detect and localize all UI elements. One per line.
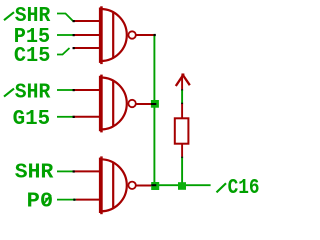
U2 pin 1 xyxy=(73,89,100,91)
U2 body arc xyxy=(101,78,127,130)
net label /SHR (U1 input A) xyxy=(4,4,50,28)
U1 output bubble xyxy=(128,31,135,38)
junction at U3 output xyxy=(151,182,159,190)
wire P0 to U3 pin 2 xyxy=(57,199,76,201)
U2 body input bar xyxy=(99,76,103,131)
U3 body arc xyxy=(101,159,127,211)
nand gate U2 xyxy=(73,75,151,133)
svg-text:SHR: SHR xyxy=(15,160,54,184)
U2 pin 2 xyxy=(73,116,100,118)
U1 pin 2 xyxy=(73,34,100,36)
pin joint dots (wire to pin transitions) xyxy=(73,20,156,201)
wire /SHR to U2 pin 1 xyxy=(57,89,73,91)
wire VCC to R1 top xyxy=(181,90,183,103)
net label P0 (U3 input B) xyxy=(27,190,53,214)
wire R1 bottom to output node xyxy=(181,158,183,186)
svg-text:P0: P0 xyxy=(27,190,53,214)
U1 body arc xyxy=(101,9,127,61)
U1 body input bar xyxy=(99,8,103,63)
R1 body xyxy=(175,118,189,143)
nand gate U3 xyxy=(73,156,151,214)
svg-text:C15: C15 xyxy=(14,44,51,68)
U1 pin 3 xyxy=(73,47,100,49)
svg-text:SHR: SHR xyxy=(15,81,51,105)
wire U1 output elbow + vertical net down to node xyxy=(153,34,155,186)
R1 top pin stub xyxy=(181,104,183,118)
nand gate U1 xyxy=(73,6,156,64)
R1 bottom pin stub xyxy=(181,145,183,157)
wire G15 to U2 pin 2 xyxy=(57,116,73,118)
svg-text:C16: C16 xyxy=(228,176,260,200)
U3 body chord xyxy=(112,163,114,209)
U2 output pin xyxy=(137,103,152,105)
svg-text:G15: G15 xyxy=(13,107,51,131)
U1 body chord xyxy=(112,12,114,58)
U3 output bubble xyxy=(128,182,135,189)
junction at U2 output on vertical net xyxy=(151,100,159,108)
wire /SHR to U1 pin 1 xyxy=(57,14,73,22)
U3 output pin xyxy=(137,185,152,187)
net label /SHR (U2 input A) xyxy=(4,81,50,105)
U3 pin 2 xyxy=(76,199,100,201)
pin/wire joint dot below R1 xyxy=(181,157,183,159)
net label SHR (U3 input A) xyxy=(15,160,54,184)
U1 pin 1 xyxy=(73,20,100,22)
resistor R1 xyxy=(175,104,189,157)
wire C15 to U1 pin 3 xyxy=(57,48,70,55)
U3 pin 1 xyxy=(73,170,100,172)
net label P15 (U1 input B) xyxy=(14,25,51,49)
pin joint dot above VCC wire xyxy=(181,89,183,91)
U2 output bubble xyxy=(128,100,135,107)
pin joint dot at R1 top wire xyxy=(181,103,183,105)
power symbol VCC arrow xyxy=(176,74,190,90)
U3 body input bar xyxy=(99,158,103,213)
wire SHR to U3 pin 1 xyxy=(57,170,73,172)
net label /C16 xyxy=(217,176,260,200)
net label C15 (U1 input C) xyxy=(14,44,51,68)
wire P15 to U1 pin 2 xyxy=(57,34,73,36)
wire output node horizontal to /C16 xyxy=(155,184,211,186)
net label G15 (U2 input B) xyxy=(13,107,51,131)
slash of zero in P0 xyxy=(43,195,51,205)
junction at R1 bottom on output net xyxy=(178,182,186,190)
U1 output pin xyxy=(137,34,156,36)
U2 body chord xyxy=(112,81,114,127)
